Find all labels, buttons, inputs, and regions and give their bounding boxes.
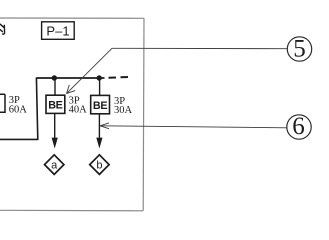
svg-text:b: b <box>96 160 102 172</box>
load symbol a (diamond) <box>45 155 64 175</box>
panel enclosure outline (top edge) <box>0 17 144 19</box>
wire: load feeder from BE2 (down arrow) <box>98 114 100 140</box>
panel enclosure outline (bottom edge) <box>0 209 143 212</box>
svg-text:a: a <box>51 160 58 172</box>
wire: stub from bus to breaker BE 30A <box>99 78 101 95</box>
callout balloon 6 <box>287 115 311 139</box>
svg-text:5: 5 <box>293 35 306 62</box>
wire: feed riser <box>36 78 37 141</box>
wire: stub from bus to breaker BE 40A <box>54 78 56 95</box>
label box P-1 <box>42 22 75 40</box>
wire: bus dashed continuation <box>109 76 131 79</box>
breaker BE 60A (partial box clipped at left edge) <box>0 94 5 112</box>
svg-text:BE: BE <box>48 100 62 112</box>
svg-text:6: 6 <box>292 113 305 140</box>
wire: incoming feed (horizontal, clipped at left) <box>0 138 38 140</box>
load symbol b (diamond) <box>90 155 109 175</box>
breaker BE2 30A box <box>91 95 110 113</box>
leader 6 open arrowhead <box>100 123 109 129</box>
svg-text:30A: 30A <box>114 105 133 116</box>
panel enclosure outline (right edge) <box>142 18 145 211</box>
junction node at BE 30A tap <box>97 75 102 80</box>
junction node at BE 40A tap <box>52 75 57 80</box>
breaker BE1 40A box <box>46 95 65 113</box>
leader to callout 6 <box>100 126 287 128</box>
svg-text:40A: 40A <box>69 105 88 116</box>
svg-text:60A: 60A <box>9 104 28 115</box>
wire: load feeder from BE1 (down arrow) <box>54 114 56 140</box>
svg-text:BE: BE <box>93 100 107 112</box>
wire: bus bar <box>36 77 104 79</box>
partial kanji label fragment (clipped at left edge) <box>0 24 4 34</box>
svg-text:P–1: P–1 <box>46 23 69 38</box>
leader to callout 5 (horizontal + diagonal) <box>67 48 288 93</box>
leader 5 open arrowhead <box>67 85 76 94</box>
callout balloon 5 <box>287 37 311 61</box>
